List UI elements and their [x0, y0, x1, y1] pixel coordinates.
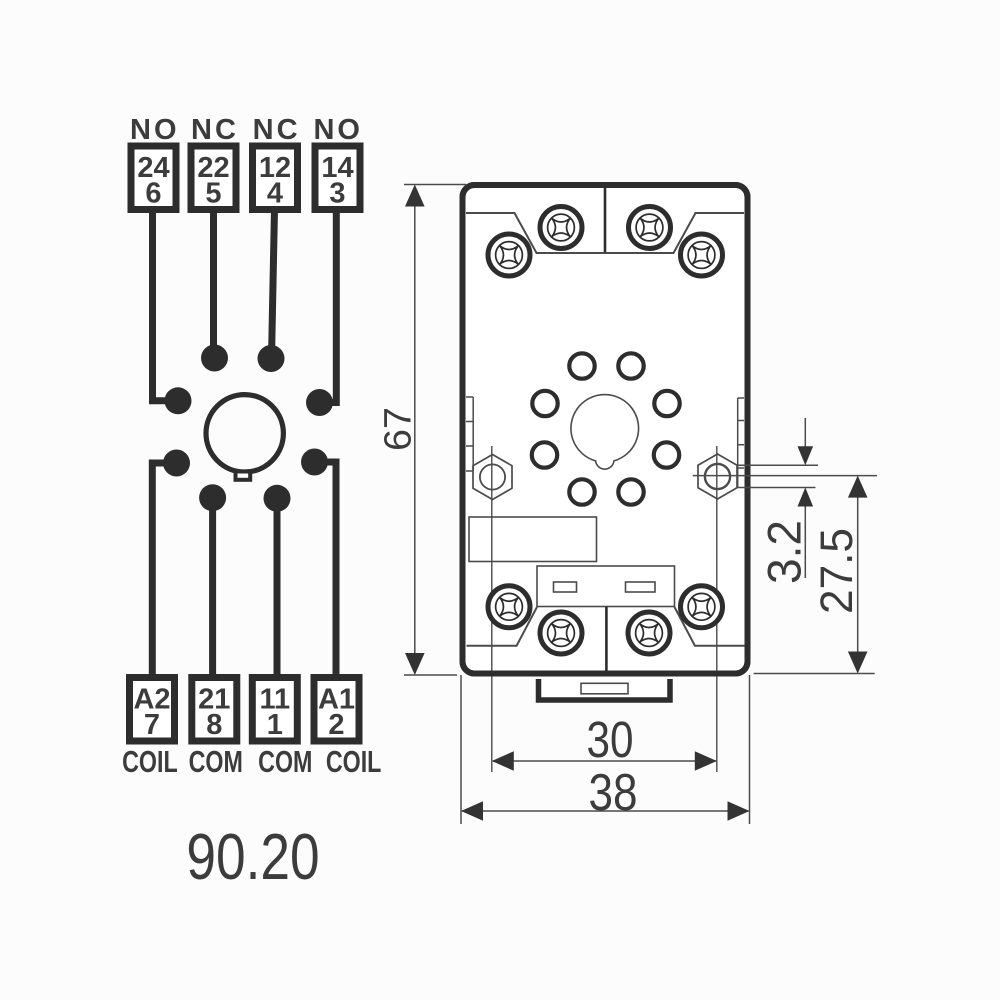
socket hole 5 [618, 353, 643, 378]
bottom recess outline right [675, 607, 745, 646]
mounting centerline / extension line left (x=491.8) [491, 446, 493, 772]
socket hole 8 [618, 479, 643, 504]
arrowhead 67 bottom [405, 653, 425, 675]
svg-text:NO: NO [130, 114, 180, 146]
svg-text:COIL: COIL [122, 744, 178, 779]
screw bottom inner-left [540, 612, 582, 654]
screw top outer-right [681, 234, 723, 276]
svg-text:NO: NO [313, 114, 363, 146]
svg-text:COM: COM [189, 744, 243, 779]
svg-text:27.5: 27.5 [811, 528, 862, 614]
pin 2 dot [301, 449, 328, 476]
bottom mounting tab [539, 679, 671, 700]
pin 5 dot [201, 345, 228, 372]
svg-text:COIL: COIL [326, 744, 382, 779]
screw bottom outer-left [488, 586, 530, 628]
wire box14/3 to right-upper dot [320, 209, 337, 403]
svg-text:6: 6 [145, 178, 161, 210]
svg-text:COM: COM [258, 744, 312, 779]
pin 4 dot [258, 345, 285, 372]
svg-text:5: 5 [205, 178, 221, 210]
arrowhead 3.2 up [798, 488, 814, 507]
terminal box A1/2 [314, 678, 359, 742]
schematic keyway tab [236, 472, 251, 480]
terminal box 12/4 [253, 146, 298, 210]
terminal box 24/6 [131, 146, 176, 210]
center keyed hole [571, 395, 639, 470]
dim 3.2 upper leader [804, 418, 806, 463]
socket hole 3 [532, 391, 557, 416]
socket outline restroke [463, 185, 748, 674]
svg-text:1: 1 [267, 709, 283, 741]
svg-text:2: 2 [328, 709, 344, 741]
svg-text:4: 4 [267, 178, 283, 210]
dim 3.2 lower leader [804, 489, 806, 578]
svg-text:7: 7 [144, 709, 160, 741]
right rail clip serrations [738, 398, 744, 488]
socket hole 4 [569, 353, 594, 378]
svg-text:8: 8 [206, 709, 222, 741]
pin 3 dot [306, 389, 333, 416]
pin 1 dot [264, 485, 291, 512]
pin 7 dot [163, 450, 190, 477]
dim 38 line [462, 810, 749, 812]
wire box22/5 to top-left dot [210, 209, 217, 358]
schematic center circle [206, 395, 283, 472]
screw bottom outer-right [681, 586, 723, 628]
screw bottom inner-right [628, 612, 670, 654]
connector slot right [626, 582, 656, 592]
clip line upper (3.2 top reference) [738, 464, 818, 466]
arrowhead 30 right [695, 751, 717, 771]
dim 67 line [414, 186, 416, 674]
arrowhead 30 left [492, 751, 514, 771]
socket hole 1 [569, 479, 594, 504]
arrowhead 27.5 bottom [848, 652, 868, 674]
svg-text:NC: NC [191, 114, 239, 146]
terminal box 14/3 [315, 146, 360, 210]
wire right-lower dot to box A1/2 [315, 462, 337, 678]
socket hole 6 [654, 391, 679, 416]
bottom tab slot [581, 683, 628, 694]
wire box24/6 to pin ring left-upper [153, 209, 179, 401]
arrowhead 3.2 down [798, 446, 814, 465]
clip line middle (27.5 reference) [693, 475, 877, 477]
top recess outline left [466, 213, 605, 253]
bottom center split line [605, 607, 608, 673]
pin 6 dot [165, 387, 192, 414]
svg-text:3.2: 3.2 [758, 520, 811, 584]
arrowhead 38 right [728, 801, 750, 821]
dim 67 extension line top [404, 184, 466, 186]
arrowhead 27.5 top [848, 476, 868, 498]
screw top inner-right [629, 207, 671, 249]
connector slot left [554, 582, 577, 592]
dim 27.5 extension line bottom [754, 673, 875, 675]
socket body outline [463, 185, 748, 674]
terminal box 11/1 [252, 678, 297, 742]
svg-text:30: 30 [587, 711, 634, 768]
pin 8 dot [199, 484, 226, 511]
svg-text:90.20: 90.20 [186, 820, 319, 893]
terminal box 21/8 [192, 678, 237, 742]
dim 30 line [493, 760, 716, 762]
top center split line [604, 186, 607, 254]
terminal box A2/7 [130, 678, 175, 742]
arrowhead 67 top [405, 185, 425, 207]
svg-text:NC: NC [253, 114, 301, 146]
terminal box 22/5 [191, 146, 236, 210]
socket hole 2 [532, 442, 557, 467]
svg-text:38: 38 [589, 764, 638, 822]
bottom connector block [537, 566, 675, 607]
svg-text:3: 3 [329, 178, 345, 210]
wire bottom-left dot to box 21/8 [209, 498, 216, 678]
dim 38 extension line right [749, 675, 751, 824]
left rail clip serrations [466, 397, 473, 471]
marking label rectangle [469, 517, 597, 562]
hex nut right mounting nut [698, 454, 737, 499]
dim 67 extension line bottom [404, 674, 457, 676]
mounting centerline / extension line right (x=716.8) [716, 446, 718, 772]
wire left-lower dot to box A2/7 [152, 463, 176, 678]
dim 38 extension line left [460, 675, 462, 824]
clip line lower (3.2 bottom reference) [738, 487, 816, 489]
screw top outer-left [488, 234, 530, 276]
dim 27.5 line [857, 477, 859, 672]
top recess outline right [605, 213, 744, 253]
schematic group [122, 114, 381, 893]
svg-text:67: 67 [378, 407, 420, 451]
wire box12/4 to top-right dot [272, 209, 275, 359]
screw top inner-left [540, 207, 582, 249]
socket hole 7 [654, 442, 679, 467]
bottom recess outline left [467, 607, 538, 646]
wire bottom-right dot to box 11/1 [274, 498, 281, 678]
arrowhead 38 left [461, 801, 483, 821]
hex nut left mounting nut [473, 455, 512, 500]
